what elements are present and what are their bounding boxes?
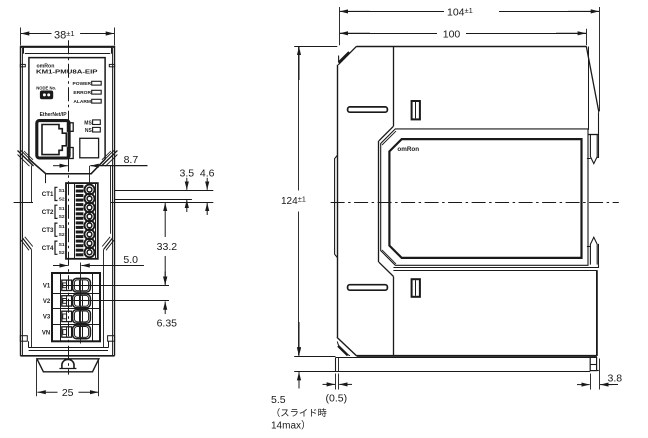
dimension 104±1 bbox=[340, 6, 600, 111]
V terminal block body bbox=[52, 273, 100, 341]
dimension 5.5 slide bbox=[271, 342, 336, 432]
dimension 100 bbox=[340, 28, 587, 45]
DIN slide latch plate bbox=[336, 358, 591, 372]
DIN hook detail bottom-left bbox=[337, 342, 350, 356]
dimension 4.6 bbox=[200, 167, 215, 215]
dimension (0.5) bbox=[323, 374, 353, 405]
CT2 label bbox=[42, 205, 65, 220]
svg-text:VN: VN bbox=[42, 330, 50, 336]
CT4 label bbox=[42, 241, 65, 256]
svg-text:ALARM: ALARM bbox=[73, 99, 91, 105]
hatched chamfer notch right wall bbox=[102, 237, 114, 348]
bottom vent slot bbox=[348, 285, 388, 291]
display panel bezel outer bbox=[381, 129, 588, 265]
CT terminal block body bbox=[66, 183, 98, 259]
dimension 33.2 bbox=[157, 203, 178, 285]
svg-text:14max）: 14max） bbox=[271, 420, 311, 432]
svg-text:NS: NS bbox=[85, 128, 93, 134]
svg-text:S1: S1 bbox=[59, 206, 65, 212]
svg-text:CT3: CT3 bbox=[42, 227, 54, 234]
blank square window bbox=[80, 138, 99, 158]
CT3 label bbox=[42, 223, 65, 238]
side view rear outline bbox=[337, 46, 597, 356]
svg-text:25: 25 bbox=[62, 387, 74, 399]
DIN hook detail top-left bbox=[339, 52, 350, 63]
V1 extension line bbox=[63, 285, 169, 287]
lower terminal cover bbox=[393, 265, 598, 356]
svg-text:CT4: CT4 bbox=[42, 245, 54, 252]
hatched chamfer notch left wall bbox=[21, 237, 33, 348]
V2 extension line bbox=[63, 300, 169, 302]
svg-text:S2: S2 bbox=[59, 214, 65, 220]
inner wall right bbox=[111, 166, 113, 238]
face side notches bbox=[20, 64, 114, 66]
svg-text:MS: MS bbox=[84, 120, 92, 126]
side view centerline bbox=[331, 202, 619, 204]
svg-text:S1: S1 bbox=[59, 188, 65, 194]
svg-text:5.0: 5.0 bbox=[123, 254, 138, 266]
bezel wall stub bbox=[45, 174, 47, 183]
dimension 3.8 bbox=[577, 359, 622, 390]
V screw terminals x4 bbox=[62, 278, 91, 338]
ERROR LED bbox=[73, 90, 101, 96]
svg-text:(0.5): (0.5) bbox=[326, 393, 348, 405]
hatched chamfer top-right of lower body bbox=[101, 150, 117, 166]
svg-text:KM1-PMU8A-EIP: KM1-PMU8A-EIP bbox=[36, 69, 98, 75]
dimension 5.0 bbox=[53, 254, 144, 344]
DIN channel front bbox=[29, 341, 109, 350]
inner wall left bbox=[23, 166, 32, 238]
front section contour bbox=[379, 46, 394, 356]
node switch bbox=[40, 91, 52, 99]
extension line B bbox=[115, 199, 192, 201]
svg-text:3.8: 3.8 bbox=[608, 372, 623, 384]
front view centerline bbox=[68, 40, 70, 374]
svg-text:5.5: 5.5 bbox=[271, 394, 286, 406]
DIN latch side bump bbox=[335, 155, 338, 257]
RJ45 connector bbox=[37, 121, 73, 159]
svg-text:POWER: POWER bbox=[73, 81, 92, 87]
upper terminal cover bbox=[586, 46, 599, 158]
lower cover hook bbox=[587, 237, 599, 264]
svg-text:100: 100 bbox=[443, 28, 461, 40]
top vent slot bbox=[348, 107, 388, 112]
upper cover hook bbox=[587, 135, 597, 164]
svg-text:V3: V3 bbox=[43, 315, 51, 321]
svg-text:3.5: 3.5 bbox=[179, 167, 194, 179]
dimension 25 bbox=[37, 360, 99, 400]
front view body outline bbox=[20, 46, 114, 356]
svg-text:S2: S2 bbox=[59, 250, 65, 256]
svg-text:33.2: 33.2 bbox=[157, 241, 178, 253]
hatched chamfer top-left of lower body bbox=[18, 150, 34, 166]
svg-text:CT1: CT1 bbox=[42, 191, 54, 198]
svg-text:S1: S1 bbox=[59, 224, 65, 230]
svg-text:（スライド時: （スライド時 bbox=[271, 408, 327, 418]
face plate bezel bbox=[29, 58, 105, 174]
svg-text:S1: S1 bbox=[59, 242, 65, 248]
CT screw terminals x8 bbox=[85, 185, 95, 258]
DIN mounting tab bbox=[37, 359, 99, 372]
svg-text:8.7: 8.7 bbox=[124, 154, 139, 166]
svg-text:4.6: 4.6 bbox=[200, 167, 215, 179]
POWER LED bbox=[73, 81, 102, 87]
svg-text:ERROR: ERROR bbox=[73, 90, 91, 96]
svg-text:V1: V1 bbox=[43, 284, 51, 290]
ALARM LED bbox=[73, 99, 101, 105]
svg-text:S2: S2 bbox=[59, 232, 65, 238]
DIN center extension line C bbox=[14, 202, 214, 204]
S1 extension line A bbox=[115, 190, 214, 192]
bottom side tabs bbox=[20, 336, 114, 342]
display panel bezel inner bbox=[389, 139, 581, 258]
NS LED bbox=[85, 127, 100, 133]
svg-text:6.35: 6.35 bbox=[157, 318, 178, 330]
svg-text:V2: V2 bbox=[43, 299, 51, 305]
right foot bbox=[590, 357, 599, 370]
dimension 8.7 bbox=[53, 154, 148, 184]
dimension 3.5 bbox=[179, 167, 194, 212]
MS LED bbox=[84, 120, 100, 126]
dimension 6.35 bbox=[157, 272, 178, 330]
DIN latch arch bbox=[59, 359, 76, 369]
svg-text:CT2: CT2 bbox=[42, 209, 54, 216]
dimension 124±1 bbox=[281, 47, 337, 357]
CT1 label bbox=[42, 187, 65, 202]
top latch window bbox=[412, 101, 420, 119]
dimension 38±1 bbox=[21, 28, 115, 46]
bottom latch window bbox=[412, 279, 420, 297]
svg-text:S2: S2 bbox=[59, 196, 65, 202]
svg-text:EtherNet/IP: EtherNet/IP bbox=[40, 112, 68, 118]
svg-text:omRon: omRon bbox=[397, 146, 419, 153]
display panel bezel chamfer doubling bbox=[382, 131, 396, 264]
